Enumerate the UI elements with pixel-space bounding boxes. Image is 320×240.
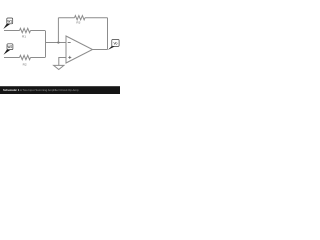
wire W2 to R2 bbox=[4, 57, 20, 59]
op-amp non-inverting pin plus sign bbox=[68, 56, 71, 59]
wire feedback vertical left bbox=[57, 18, 59, 43]
wire feedback top right bbox=[85, 17, 108, 19]
output flag Vo bbox=[108, 40, 119, 50]
svg-text:A Two Input Summing Amplifier: A Two Input Summing Amplifier Circuit Op… bbox=[20, 88, 79, 92]
source flag W2 bbox=[4, 44, 13, 55]
svg-text:W1: W1 bbox=[7, 19, 12, 23]
svg-text:R1: R1 bbox=[22, 35, 26, 39]
wire R2 to summing bus bbox=[31, 57, 46, 59]
svg-text:Vo: Vo bbox=[113, 42, 117, 46]
source flag W1 bbox=[3, 18, 12, 29]
wire bus to inverting input bbox=[45, 42, 66, 44]
wire R1 to summing bus bbox=[31, 30, 46, 32]
op-amp inverting pin minus sign bbox=[68, 42, 71, 44]
wire feedback top left bbox=[58, 17, 74, 19]
caption bar bbox=[0, 86, 120, 94]
node A junction dot bbox=[57, 41, 59, 43]
wire feedback vertical right to output bbox=[107, 18, 109, 50]
resistor R2 bbox=[20, 55, 31, 59]
svg-text:R2: R2 bbox=[23, 62, 27, 66]
wire op-amp output bbox=[93, 49, 108, 51]
ground bbox=[54, 65, 64, 69]
op-amp U1 bbox=[66, 36, 93, 63]
svg-text:W2: W2 bbox=[8, 45, 13, 49]
resistor R1 bbox=[20, 28, 31, 32]
svg-text:Schematic 1: Schematic 1 bbox=[3, 88, 20, 92]
wire non-inverting input bbox=[59, 58, 66, 66]
resistor R3 bbox=[75, 16, 86, 20]
svg-text:R3: R3 bbox=[76, 21, 80, 25]
wire vertical bus joining R1 and R2 bbox=[45, 31, 47, 58]
wire W1 to R1 bbox=[4, 30, 20, 32]
